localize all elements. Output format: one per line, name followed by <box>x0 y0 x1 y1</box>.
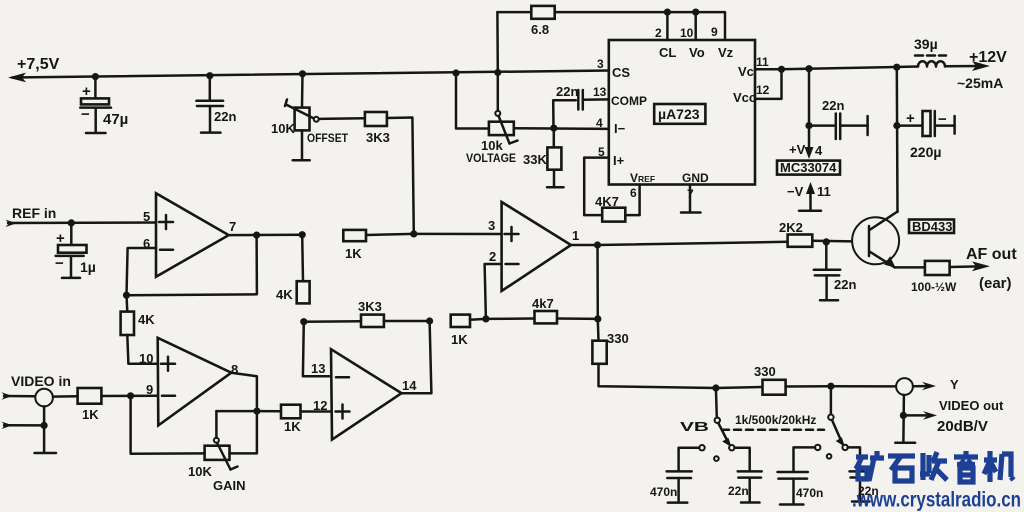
svg-text:1: 1 <box>572 228 579 243</box>
svg-text:10: 10 <box>680 26 694 40</box>
svg-text:3: 3 <box>597 57 604 71</box>
capacitor 470n (S2 left) <box>778 447 824 504</box>
svg-text:22n: 22n <box>834 277 856 292</box>
wire <box>94 77 97 99</box>
svg-text:33K: 33K <box>523 152 547 167</box>
resistor 1K (A3 out) <box>451 315 490 347</box>
svg-text:(ear): (ear) <box>979 275 1012 292</box>
wire <box>387 118 414 234</box>
wire rail up to 6.8 loop <box>496 12 499 72</box>
switch S2 <box>815 386 848 458</box>
svg-text:MC33074: MC33074 <box>780 160 837 175</box>
resistor 4k7 (A4 fb) <box>486 296 602 323</box>
svg-text:220µ: 220µ <box>910 144 941 160</box>
svg-text:4: 4 <box>815 143 823 158</box>
resistor 330 (vertical) <box>592 319 719 392</box>
op-amp A4 (3,2,1) <box>488 202 579 291</box>
svg-text:330: 330 <box>607 331 629 346</box>
wire wiper to 3K3 <box>319 117 365 120</box>
ground -V pin 11 <box>787 182 831 211</box>
svg-text:6: 6 <box>630 186 637 200</box>
svg-text:REF in: REF in <box>12 205 56 221</box>
svg-text:µA723: µA723 <box>658 106 700 122</box>
svg-text:.www.crystalradio.cn: .www.crystalradio.cn <box>852 489 1021 512</box>
svg-text:GAIN: GAIN <box>213 478 246 493</box>
resistor 1K (video in) <box>78 388 158 422</box>
svg-text:11: 11 <box>817 184 831 199</box>
resistor 3K3 (offset) <box>365 112 414 234</box>
svg-text:3: 3 <box>488 218 495 233</box>
capacitor 470n (S1 left) <box>650 448 699 503</box>
capacitor 22n (S1 right) <box>728 448 762 503</box>
svg-text:1µ: 1µ <box>80 259 96 275</box>
svg-text:1K: 1K <box>82 407 99 422</box>
svg-text:Vcc: Vcc <box>733 90 756 105</box>
wire +12V rail <box>782 64 919 73</box>
svg-text:−: − <box>81 106 90 123</box>
svg-text:39µ: 39µ <box>914 36 938 52</box>
capacitor 22n (Vc) <box>809 98 868 139</box>
pin 5 I+ <box>584 145 624 168</box>
inductor 39u <box>914 36 1007 91</box>
svg-text:4K: 4K <box>138 312 155 327</box>
wire to VOLTAGE pot left <box>456 73 489 129</box>
svg-text:~25mA: ~25mA <box>957 75 1003 91</box>
svg-text:47µ: 47µ <box>103 111 128 128</box>
svg-text:10K: 10K <box>271 121 295 136</box>
pin 10 Vo <box>680 9 705 61</box>
svg-text:22n: 22n <box>556 84 578 99</box>
svg-text:9: 9 <box>711 25 718 39</box>
collector <box>870 212 898 231</box>
svg-text:4K: 4K <box>276 287 293 302</box>
op-amp A1 (5,6,7) <box>143 193 236 277</box>
svg-text:470n: 470n <box>796 486 823 500</box>
svg-text:BD433: BD433 <box>912 219 952 234</box>
svg-text:4K7: 4K7 <box>595 194 619 209</box>
svg-text:4k7: 4k7 <box>532 296 554 311</box>
node Y output connector <box>895 377 1004 443</box>
svg-text:Vc: Vc <box>738 64 754 79</box>
pin 2 CL <box>655 9 676 61</box>
resistor 330 (horizontal) <box>716 364 896 395</box>
svg-text:+7,5V: +7,5V <box>17 56 60 73</box>
svg-text:22n: 22n <box>822 98 844 113</box>
capacitor 22n (S2 right) <box>848 447 879 501</box>
resistor 4K (mid) <box>276 235 310 304</box>
svg-text:7: 7 <box>229 219 236 234</box>
wiper <box>285 100 287 107</box>
svg-text:CL: CL <box>659 45 676 60</box>
svg-text:+12V: +12V <box>969 49 1007 66</box>
resistor 4K (A1) <box>121 295 158 364</box>
resistor 6.8 <box>497 6 725 40</box>
svg-text:10: 10 <box>139 351 153 366</box>
svg-text:VREF: VREF <box>630 171 655 185</box>
svg-text:I−: I− <box>614 121 626 136</box>
svg-text:VB: VB <box>680 419 709 434</box>
svg-text:1K: 1K <box>284 419 301 434</box>
arrowhead +7.5V <box>8 73 26 83</box>
wire dashed (switch gang) <box>722 429 824 432</box>
emitter <box>870 252 895 268</box>
pin 13 COMP <box>593 85 647 108</box>
svg-text:2: 2 <box>489 249 496 264</box>
svg-text:AF out: AF out <box>966 246 1017 263</box>
potentiometer 10k VOLTAGE <box>466 111 609 165</box>
svg-text:6.8: 6.8 <box>531 22 549 37</box>
wire A3 output 14 <box>402 321 432 393</box>
op-amp A2 (10,9,8) <box>139 338 238 426</box>
capacitor 220u <box>893 67 954 212</box>
svg-text:10K: 10K <box>188 464 212 479</box>
op-amp package MC33074 label <box>777 160 840 175</box>
resistor 2K2 <box>598 220 870 247</box>
svg-text:1k/500k/20kHz: 1k/500k/20kHz <box>735 413 816 427</box>
op-amp/regulator U1 uA723 body <box>609 40 755 185</box>
svg-text:−: − <box>55 255 64 272</box>
svg-text:1K: 1K <box>451 332 468 347</box>
svg-text:3K3: 3K3 <box>358 299 382 314</box>
wire 4K to pin10 <box>127 335 157 364</box>
svg-text:GND: GND <box>682 171 709 185</box>
resistor 100-1/2W / AF out <box>895 246 1018 294</box>
capacitor 1u <box>55 223 96 278</box>
svg-text:20dB/V: 20dB/V <box>937 418 988 435</box>
svg-text:470n: 470n <box>650 485 677 499</box>
pin 9 Vz <box>711 25 734 60</box>
junction <box>92 73 99 80</box>
pin 3 CS <box>597 57 630 80</box>
pin 11 Vc <box>738 55 782 79</box>
potentiometer 10K GAIN <box>131 396 257 493</box>
svg-text:330: 330 <box>754 364 776 379</box>
svg-text:5: 5 <box>143 209 150 224</box>
resistor 33K <box>523 128 564 187</box>
svg-text:I+: I+ <box>613 153 625 168</box>
wire to pin 2 <box>485 264 502 319</box>
capacitor 22n (base) <box>814 242 857 300</box>
svg-text:11: 11 <box>756 55 769 69</box>
svg-text:5: 5 <box>598 145 605 159</box>
svg-text:VIDEO out: VIDEO out <box>939 398 1004 413</box>
resistor 1K (to pin 12) <box>257 405 331 434</box>
op-amp A3 (13,12,14) <box>311 349 417 439</box>
pin 7 GND <box>681 171 709 213</box>
svg-text:7: 7 <box>687 187 694 201</box>
capacitor 22n (COMP) <box>553 84 609 128</box>
resistor 3K3 (A3 fb) <box>304 299 433 327</box>
svg-text:12: 12 <box>313 398 327 413</box>
capacitor 47u <box>80 73 128 133</box>
svg-text:13: 13 <box>311 361 325 376</box>
svg-text:9: 9 <box>146 382 153 397</box>
transistor Q1 BD433 <box>852 212 954 268</box>
wire rail down to wiper <box>497 73 500 111</box>
svg-text:14: 14 <box>402 378 417 393</box>
svg-text:+V: +V <box>789 142 806 157</box>
svg-text:22n: 22n <box>728 484 749 498</box>
svg-text:Vz: Vz <box>718 45 734 60</box>
wire Vc node down to MC33074 <box>789 69 823 159</box>
svg-text:CS: CS <box>612 65 630 80</box>
svg-text:−V: −V <box>787 184 804 199</box>
wire op-amp A1 output <box>229 231 306 239</box>
svg-text:OFFSET: OFFSET <box>307 131 349 145</box>
switch S1 <box>699 388 734 461</box>
svg-text:VOLTAGE: VOLTAGE <box>466 151 516 165</box>
node rail junctions right <box>452 12 501 128</box>
ground <box>201 131 221 134</box>
pin 12 Vcc <box>733 66 785 105</box>
watermark logo (blue CJK-style glyph strokes) <box>856 451 1014 482</box>
ground <box>301 130 304 159</box>
svg-text:2K2: 2K2 <box>779 220 803 235</box>
wire to +12V <box>945 65 982 68</box>
resistor 1K (A1 out) <box>343 230 501 261</box>
svg-text:2: 2 <box>655 26 662 40</box>
ground <box>86 132 106 135</box>
wire pin13 to junction <box>300 318 331 376</box>
node VIDEO in <box>2 373 78 453</box>
svg-text:Y: Y <box>950 377 959 392</box>
wire A2 output to GAIN loop <box>230 373 261 454</box>
svg-text:12: 12 <box>756 83 770 97</box>
svg-text:100-½W: 100-½W <box>911 280 957 294</box>
svg-text:VIDEO in: VIDEO in <box>11 373 71 389</box>
svg-text:3K3: 3K3 <box>366 130 390 145</box>
wire pot to I- <box>514 127 609 130</box>
potentiometer 10K OFFSET <box>271 70 365 160</box>
ground <box>547 186 564 189</box>
svg-text:1K: 1K <box>345 246 362 261</box>
wire A1 feedback <box>123 235 257 299</box>
node +7,5V rail <box>8 56 610 82</box>
wire GAIN bottom loop <box>131 396 205 454</box>
svg-text:13: 13 <box>593 85 607 99</box>
svg-text:22n: 22n <box>214 109 236 124</box>
node REF in <box>6 205 157 227</box>
wire A4 output node <box>571 241 601 319</box>
pin 6 Vref / resistor 4K7 <box>584 158 655 222</box>
svg-text:Vo: Vo <box>689 45 705 60</box>
svg-text:4: 4 <box>596 116 603 130</box>
pin 4 I- <box>596 116 626 136</box>
wire +7.5V rail <box>12 71 610 78</box>
svg-text:COMP: COMP <box>611 94 647 108</box>
svg-text:+: + <box>906 110 915 127</box>
capacitor 22n (rail) <box>196 72 236 133</box>
